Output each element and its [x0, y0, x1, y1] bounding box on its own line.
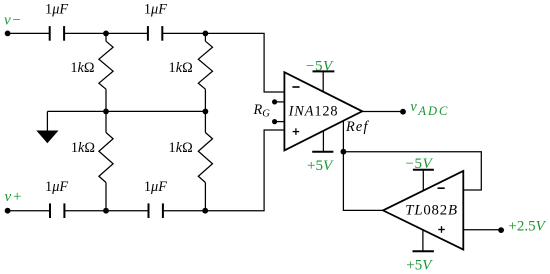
node middle-left: [103, 109, 109, 115]
svg-text:INA128: INA128: [288, 104, 339, 120]
svg-text:vADC: vADC: [410, 99, 449, 118]
svg-text:1μF: 1μF: [144, 179, 167, 195]
wire U1 Ref pin: [342, 121, 344, 152]
svg-text:1kΩ: 1kΩ: [169, 60, 193, 76]
svg-text:+2.5V: +2.5V: [508, 218, 546, 234]
wire v+ to C3: [8, 210, 50, 212]
svg-text:Ref: Ref: [345, 119, 369, 135]
resistor R3 1k: [99, 133, 113, 183]
wire C3 to C4: [64, 210, 148, 212]
svg-text:+5V: +5V: [307, 158, 334, 174]
U2 plus sign: [438, 229, 445, 231]
svg-text:−5V: −5V: [306, 58, 334, 74]
wire U2 V+ stem: [422, 230, 424, 251]
wire U1 V+ stem: [322, 131, 324, 152]
svg-text:v−: v−: [4, 13, 22, 29]
node bottom-left: [103, 208, 109, 214]
svg-text:1kΩ: 1kΩ: [169, 140, 193, 156]
U2 minus sign: [438, 187, 445, 189]
wire node to U2 output: [343, 152, 383, 211]
wire feedback to U2 - input: [343, 152, 481, 190]
U1 plus sign: [293, 131, 300, 133]
resistor R4 1k: [198, 133, 212, 183]
node top-left: [103, 31, 109, 37]
U1 minus sign: [292, 86, 299, 88]
U1 V+ supply bar: [312, 151, 333, 153]
resistor R1 1k: [99, 41, 113, 89]
wire U1 V- stem: [322, 71, 324, 92]
terminal v+: [5, 208, 11, 214]
U2 V+ supply bar: [413, 250, 434, 252]
svg-text:+5V: +5V: [406, 258, 433, 274]
wire RG pin upper: [275, 101, 285, 103]
svg-text:1kΩ: 1kΩ: [70, 60, 94, 76]
wire C1 to C2: [64, 32, 148, 34]
wire RG pin lower: [275, 121, 285, 123]
wire bottom rail to INA128 + input: [163, 130, 285, 211]
terminal +2.5V: [498, 227, 504, 233]
wire U2 V- stem: [422, 170, 424, 191]
terminal v-: [5, 31, 11, 37]
wire ground stem: [46, 111, 48, 131]
svg-text:1μF: 1μF: [45, 179, 68, 195]
capacitor C2 1uF: [147, 26, 149, 41]
wire R2 bottom lead: [204, 89, 206, 111]
op-amp U1 INA128: [284, 72, 362, 150]
node middle-right: [203, 109, 209, 115]
U1 V- supply bar: [313, 70, 335, 72]
svg-text:1μF: 1μF: [144, 1, 167, 17]
svg-text:v+: v+: [5, 189, 23, 205]
capacitor C4 1uF: [148, 203, 150, 218]
terminal RG upper: [272, 99, 277, 104]
svg-text:−5V: −5V: [406, 156, 434, 172]
node Ref junction: [341, 149, 347, 155]
U2 V- supply bar: [413, 169, 434, 171]
wire R3 top lead: [105, 111, 107, 132]
svg-text:RG: RG: [253, 102, 271, 120]
wire U1 output: [362, 111, 403, 113]
wire R1 top lead: [105, 33, 107, 41]
wire R4 bottom lead: [204, 183, 206, 211]
capacitor C3 1uF: [49, 203, 51, 218]
capacitor C1 1uF: [49, 26, 51, 41]
terminal RG lower: [272, 119, 277, 124]
node bottom-right: [202, 208, 208, 214]
wire middle rail: [47, 110, 205, 112]
node top-right: [203, 31, 209, 37]
op-amp U2 TL082B: [383, 171, 463, 250]
wire top rail to INA128 - input: [162, 33, 284, 92]
wire R2 top lead: [204, 33, 206, 41]
wire v- to C1: [8, 32, 50, 34]
terminal vADC: [400, 109, 406, 115]
resistor R2 1k: [198, 41, 212, 89]
wire R4 top lead: [204, 111, 206, 132]
ground: [37, 131, 57, 143]
svg-text:1kΩ: 1kΩ: [71, 140, 95, 156]
wire R3 bottom lead: [105, 183, 107, 211]
svg-text:1μF: 1μF: [45, 1, 68, 17]
wire U2 + input to +2.5V: [463, 229, 501, 231]
wire R1 bottom lead: [105, 89, 107, 111]
svg-text:TL082B: TL082B: [405, 203, 458, 219]
